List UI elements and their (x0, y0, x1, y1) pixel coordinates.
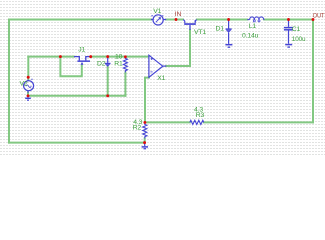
svg-text:R1: R1 (114, 61, 123, 68)
ground under C1 (285, 44, 292, 46)
wire left rail (8, 20, 10, 143)
V2 plus terminal marker (27, 76, 30, 79)
junction C1 top (287, 18, 290, 21)
junction gate loop (59, 55, 62, 58)
resistor R3 (190, 120, 204, 124)
op-amp X1 (149, 55, 166, 77)
junction V2 minus (27, 94, 30, 97)
ground under V2 (27, 96, 29, 98)
wire D2 lower drop (107, 67, 109, 96)
node IN junction (175, 18, 178, 21)
wire feedback rail left of R3 (145, 121, 190, 123)
junction J1 source (89, 55, 92, 58)
svg-text:OUT: OUT (313, 12, 325, 19)
junction R1 top (124, 55, 127, 58)
wire opamp inverting input (145, 78, 149, 123)
capacitor C1 (284, 21, 293, 44)
svg-text:R2: R2 (133, 125, 142, 132)
svg-text:IN: IN (175, 11, 182, 18)
resistor R1 (123, 57, 127, 72)
wire mid rail left of J1 (28, 56, 74, 58)
svg-text:C1: C1 (292, 26, 301, 33)
svg-text:L1: L1 (249, 23, 257, 30)
svg-text:10: 10 (115, 53, 123, 60)
diode D1 (226, 21, 232, 44)
svg-text:V1: V1 (153, 8, 161, 15)
wire top rail VT1 to L1 (197, 19, 247, 21)
junction D2 bottom (106, 94, 109, 97)
voltage source V1 (151, 15, 166, 25)
svg-text:0.14u: 0.14u (242, 32, 259, 39)
svg-text:X1: X1 (157, 75, 165, 82)
wire opamp output to VT1 gate (166, 30, 190, 66)
wire top rail L1 to OUT corner (264, 19, 313, 21)
svg-text:R3: R3 (196, 112, 205, 119)
JFET J1 (74, 57, 91, 65)
junction R2 bottom ground (143, 141, 146, 144)
svg-text:D2: D2 (97, 60, 106, 67)
zener diode D2 (105, 58, 111, 67)
wire V2 riser (27, 57, 29, 80)
resistor R2 (143, 122, 147, 138)
wire R1 lower drop (124, 72, 126, 95)
wire mid rail right of J1 (91, 56, 148, 58)
svg-text:100u: 100u (292, 36, 306, 43)
svg-text:V2: V2 (20, 81, 28, 88)
svg-text:J1: J1 (78, 47, 85, 54)
ground under D1 (225, 44, 232, 46)
node OUT corner junction (312, 18, 315, 21)
transistor VT1 (183, 20, 197, 30)
wire top rail V1 to VT1 (166, 19, 183, 21)
junction D1 top (227, 18, 230, 21)
wire feedback rail right of R3 (204, 121, 313, 123)
wire mid-lower rail (28, 95, 125, 97)
wire top rail left segment (9, 19, 151, 21)
wire V2 bottom stub (27, 93, 29, 96)
svg-text:VT1: VT1 (194, 29, 206, 36)
wire R2 bottom stub (144, 138, 146, 142)
wire J1 gate loop (60, 57, 81, 77)
voltage source V2 (24, 79, 34, 92)
wire right riser OUT (312, 20, 314, 123)
ground under R2 (144, 143, 146, 147)
junction R2 top (143, 121, 146, 124)
svg-text:D1: D1 (216, 26, 225, 33)
wire bottom ground rail (9, 142, 145, 144)
junction D2 top (106, 55, 109, 58)
inductor L1 (247, 17, 264, 22)
